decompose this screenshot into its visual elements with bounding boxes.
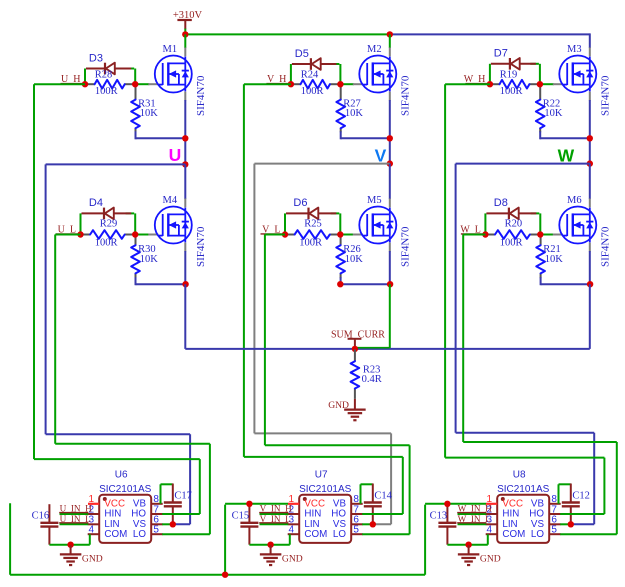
wire VS to column <box>571 523 594 525</box>
net label U_L underline <box>56 233 78 235</box>
net label U_IN_H underline <box>59 512 88 514</box>
svg-text:LO: LO <box>333 529 346 540</box>
U6 pin 2 HIN stub <box>88 513 100 515</box>
wire phase U to VS column <box>46 433 191 435</box>
wire SUM_CURR bus <box>185 348 590 350</box>
transistor M2 SIF4N70 <box>359 56 396 93</box>
svg-text:W: W <box>558 145 575 165</box>
node U8 ground junction <box>465 542 471 548</box>
gate pin stub <box>148 83 158 85</box>
wire source to return junction <box>589 100 591 164</box>
wire W_IN_H <box>458 513 487 515</box>
svg-text:4: 4 <box>88 525 94 536</box>
drain pin stub <box>389 48 391 57</box>
wire R31 return <box>136 137 186 139</box>
wire VB bootstrap loop <box>558 484 560 504</box>
drain pin stub <box>184 48 186 57</box>
wire U_IN_H <box>60 513 89 515</box>
op-amp U6 gate driver SIC2101AS body <box>99 495 151 543</box>
wire VS column <box>189 434 191 524</box>
wire LO column <box>209 444 211 534</box>
wire HO <box>362 513 403 515</box>
diode D8 <box>486 208 539 220</box>
phase U high side section <box>0 0 1 1</box>
U8 pin 4 COM stub <box>486 533 498 535</box>
capacitor C17 <box>164 484 182 525</box>
wire W_H horizontal <box>445 83 490 85</box>
net label U_IN_L underline <box>59 522 88 524</box>
wire R23 to ground <box>354 399 356 409</box>
svg-text:SIF4N70: SIF4N70 <box>599 226 611 267</box>
svg-text:R24: R24 <box>301 70 319 81</box>
svg-text:C16: C16 <box>32 510 50 521</box>
wire VS green segment <box>560 523 571 525</box>
wire COM jog <box>487 534 489 545</box>
node U_H right junction <box>132 81 138 87</box>
phase W low side section <box>0 0 1 1</box>
wire V_IN_H <box>260 513 289 515</box>
wire U_L horizontal <box>55 234 80 236</box>
U6 pin 5 LO stub <box>151 533 163 535</box>
node C14 VS junction <box>370 521 376 527</box>
wire HO <box>560 513 604 515</box>
source pin stub <box>389 243 391 252</box>
svg-text:100R: 100R <box>500 86 523 97</box>
wire drain feed <box>184 34 186 48</box>
svg-text:10K: 10K <box>545 254 564 265</box>
wire W_L horizontal <box>463 234 485 236</box>
drain pin stub <box>184 199 186 208</box>
wire ground run <box>49 544 89 546</box>
diode D4 <box>82 208 135 220</box>
svg-text:C17: C17 <box>174 491 192 502</box>
svg-text:GND: GND <box>480 554 501 565</box>
wire <box>134 213 136 234</box>
node U8 VCC junction <box>444 501 450 507</box>
wire <box>84 69 86 85</box>
node return junction <box>182 135 188 141</box>
ground GND (U7) <box>260 545 282 565</box>
wire W_L to LO column <box>463 441 617 443</box>
drain pin stub <box>389 199 391 208</box>
node return junction <box>387 135 393 141</box>
svg-text:COM: COM <box>104 529 127 540</box>
svg-text:COM: COM <box>304 529 327 540</box>
wire V_H to HO column <box>244 456 403 458</box>
wire <box>284 213 286 234</box>
source pin stub <box>184 243 186 252</box>
svg-text:SIF4N70: SIF4N70 <box>195 226 207 267</box>
node U7 VCC junction <box>246 501 252 507</box>
resistor R20 100R <box>486 230 539 239</box>
U7 pin 6 VS stub <box>351 523 363 525</box>
node lower return junction <box>182 281 188 287</box>
svg-text:10K: 10K <box>544 108 563 119</box>
wire top rail green segment <box>185 33 389 35</box>
wire LO column <box>409 445 411 534</box>
U8 pin 1 VCC stub <box>486 503 497 505</box>
phase W high side section <box>0 0 1 1</box>
wire U_IN_L <box>60 523 89 525</box>
wire VS column <box>593 433 595 525</box>
phase V low side section <box>0 0 1 1</box>
U6 pin-1 dot <box>103 497 107 501</box>
wire HO <box>162 513 200 515</box>
ground GND (U8) <box>458 545 480 565</box>
svg-text:GND: GND <box>82 554 103 565</box>
U8 pin 6 VS stub <box>549 523 561 525</box>
U8 pin 7 HO stub <box>549 513 561 515</box>
U7 pin 7 HO stub <box>351 513 363 515</box>
U6 pin 6 VS stub <box>151 523 163 525</box>
wire <box>339 213 341 234</box>
wire <box>290 64 292 84</box>
ground GND (R23) <box>344 409 366 411</box>
svg-text:M6: M6 <box>567 195 582 206</box>
resistor R29 100R <box>82 230 135 239</box>
U7 pin 4 COM stub <box>288 533 300 535</box>
wire LO <box>162 533 210 535</box>
resistor R23 0.4R <box>351 349 360 399</box>
wire M3 drain drop <box>589 33 591 48</box>
net label V_IN_L underline <box>259 522 288 524</box>
svg-text:SIC2101AS: SIC2101AS <box>497 484 550 495</box>
phase U low side section <box>0 0 1 1</box>
wire source to bus <box>589 284 591 349</box>
wire W_L vertical <box>462 235 464 443</box>
svg-text:10K: 10K <box>345 254 364 265</box>
svg-text:5: 5 <box>153 525 159 536</box>
wire LO <box>560 533 617 535</box>
wire U_H vertical <box>33 84 35 459</box>
wire <box>184 29 186 35</box>
source pin stub <box>389 92 391 101</box>
wire VS green segment <box>162 523 173 525</box>
svg-text:10K: 10K <box>140 108 159 119</box>
svg-text:4: 4 <box>288 525 294 536</box>
source pin stub <box>184 92 186 101</box>
U6 pin 4 COM stub <box>88 533 100 535</box>
svg-text:GND: GND <box>282 554 303 565</box>
svg-text:100R: 100R <box>301 86 324 97</box>
svg-text:M1: M1 <box>163 44 178 55</box>
node V_H left junction <box>288 81 294 87</box>
gate pin stub <box>553 83 563 85</box>
node W_L left junction <box>482 231 488 237</box>
ground GND (U6) <box>60 545 82 565</box>
wire R30 return <box>136 283 186 285</box>
resistor R21 10K <box>536 236 545 286</box>
wire phase to lower drain <box>589 164 591 199</box>
phase V high side section <box>0 0 1 1</box>
wire U_L vertical <box>54 235 56 444</box>
wire <box>339 64 341 84</box>
node phase V <box>387 160 393 166</box>
wire V_IN_L <box>260 523 289 525</box>
node W_H right junction <box>537 81 543 87</box>
svg-text:5: 5 <box>551 525 557 536</box>
svg-text:D8: D8 <box>494 197 508 209</box>
node bus junction <box>222 572 228 578</box>
wire <box>134 69 136 85</box>
wire <box>161 483 173 485</box>
wire U7 VCC feed <box>225 503 288 505</box>
gate pin stub <box>353 83 363 85</box>
wire <box>559 483 571 485</box>
node rail junction above M2 <box>387 31 393 37</box>
svg-text:10K: 10K <box>140 254 159 265</box>
transistor M1 SIF4N70 <box>155 56 192 93</box>
wire phase V vertical <box>253 164 255 434</box>
wire VS to column <box>173 523 190 525</box>
net label SUM_CURR underline <box>348 338 362 340</box>
wire to gate <box>341 234 354 236</box>
svg-text:COM: COM <box>502 529 525 540</box>
wire <box>361 483 373 485</box>
resistor R24 100R <box>292 80 340 89</box>
wire V_L horizontal <box>265 234 285 236</box>
svg-text:D4: D4 <box>89 197 103 209</box>
wire LO column <box>616 442 618 534</box>
svg-text:C12: C12 <box>572 491 590 502</box>
wire M5 source overlap <box>355 347 390 349</box>
wire phase W to VS column <box>456 432 595 434</box>
wire source to return junction <box>184 100 186 164</box>
node lower return junction <box>387 281 393 287</box>
wire <box>489 64 491 84</box>
wire source to return junction <box>389 100 391 164</box>
svg-text:0.4R: 0.4R <box>362 374 382 385</box>
wire to gate <box>136 234 149 236</box>
resistor R30 10K <box>131 236 140 286</box>
capacitor C15 <box>240 504 258 545</box>
U8 pin 5 LO stub <box>549 533 561 535</box>
gate pin stub <box>353 234 363 236</box>
U7 pin-1 dot <box>303 497 307 501</box>
wire R26 return <box>341 283 390 285</box>
svg-text:V: V <box>375 145 387 165</box>
svg-text:SIF4N70: SIF4N70 <box>399 75 411 116</box>
node U_H left junction <box>82 81 88 87</box>
wire lower source <box>589 251 591 284</box>
transistor M6 SIF4N70 <box>559 207 596 244</box>
capacitor C13 <box>438 504 456 545</box>
gate pin stub <box>148 234 158 236</box>
resistor R19 100R <box>491 80 539 89</box>
net label W_IN_L underline <box>457 522 486 524</box>
wire VS to column <box>373 523 391 525</box>
node phase W <box>587 160 593 166</box>
svg-text:C13: C13 <box>430 510 448 521</box>
svg-text:R20: R20 <box>505 218 523 229</box>
node C17 VS junction <box>170 521 176 527</box>
net label W_H underline <box>465 83 487 85</box>
wire phase V to VS column <box>254 432 391 434</box>
wire R22 return <box>540 137 590 139</box>
wire phase W horizontal <box>456 163 590 165</box>
wire ground run <box>447 544 487 546</box>
transistor M4 SIF4N70 <box>155 207 192 244</box>
svg-text:100R: 100R <box>299 238 322 249</box>
svg-text:SIC2101AS: SIC2101AS <box>299 484 352 495</box>
wire COM jog <box>289 534 291 545</box>
node U_L left junction <box>77 231 83 237</box>
resistor R26 10K <box>336 236 345 286</box>
wire VB bootstrap loop <box>360 484 362 504</box>
net label W_L underline <box>461 233 483 235</box>
svg-text:U8: U8 <box>513 469 526 480</box>
svg-text:R25: R25 <box>304 218 322 229</box>
wire HO column <box>603 458 605 514</box>
wire V_L to LO column <box>265 444 410 446</box>
wire to gate <box>341 83 353 85</box>
U6 pin 1 VCC stub <box>88 503 99 505</box>
resistor R27 10K <box>336 85 345 139</box>
svg-text:R29: R29 <box>100 218 118 229</box>
svg-text:SIF4N70: SIF4N70 <box>399 226 411 267</box>
U7 pin 8 VB stub <box>351 503 363 505</box>
svg-text:SIF4N70: SIF4N70 <box>195 75 207 116</box>
wire U_H horizontal <box>34 83 85 85</box>
wire V_L vertical <box>264 235 266 446</box>
svg-text:SIC2101AS: SIC2101AS <box>99 484 152 495</box>
wire U7 VCC riser <box>224 505 226 575</box>
resistor R31 10K <box>131 85 140 139</box>
svg-text:100R: 100R <box>500 238 523 249</box>
node lower return junction <box>587 281 593 287</box>
wire phase U vertical <box>45 164 47 434</box>
wire U8 VCC riser <box>424 505 426 575</box>
U6 pin 8 VB stub <box>151 503 163 505</box>
+310V power bar <box>177 19 191 21</box>
wire lower source <box>389 251 391 284</box>
svg-text:D6: D6 <box>293 197 307 209</box>
op-amp U7 gate driver SIC2101AS body <box>299 495 351 543</box>
wire COM jog <box>89 534 91 545</box>
wire V_H vertical <box>243 84 245 457</box>
node V_H right junction <box>337 81 343 87</box>
node +310V junction <box>182 31 188 37</box>
wire SUM_CURR stub <box>354 340 356 349</box>
svg-text:LO: LO <box>133 529 146 540</box>
wire phase to lower drain <box>184 164 186 199</box>
wire top rail blue segment <box>390 33 590 35</box>
svg-text:10K: 10K <box>345 108 364 119</box>
wire W_H vertical <box>444 84 446 457</box>
U8 pin 3 LIN stub <box>486 523 498 525</box>
drain pin stub <box>589 199 591 208</box>
drain pin stub <box>589 48 591 57</box>
wire source to bus <box>184 284 186 349</box>
net label V_H underline <box>266 83 288 85</box>
net label W_IN_H underline <box>457 512 486 514</box>
diode D3 <box>86 63 134 75</box>
wire V_H horizontal <box>244 83 291 85</box>
U7 pin 1 VCC stub <box>288 503 299 505</box>
svg-text:LO: LO <box>531 529 544 540</box>
node U7 ground junction <box>267 542 273 548</box>
wire phase V horizontal <box>254 163 389 165</box>
wire phase U horizontal <box>46 163 186 165</box>
node U6 ground junction <box>67 542 73 548</box>
svg-text:R28: R28 <box>95 70 113 81</box>
wire to gate <box>541 83 554 85</box>
wire bottom VCC bus <box>10 574 425 576</box>
wire <box>80 213 82 234</box>
net label V_IN_H underline <box>259 512 288 514</box>
svg-text:U6: U6 <box>115 469 128 480</box>
node SUM_CURR junction <box>352 346 358 352</box>
node R26 corner junction <box>337 281 343 287</box>
diode D5 <box>292 58 340 70</box>
wire W_IN_L <box>458 523 487 525</box>
wire R21 return <box>541 283 590 285</box>
svg-text:M3: M3 <box>567 44 582 55</box>
node return junction <box>587 135 593 141</box>
wire LO <box>362 533 409 535</box>
transistor M3 SIF4N70 <box>559 56 596 93</box>
gate pin stub <box>553 234 563 236</box>
node phase U <box>182 161 188 167</box>
wire VB bootstrap loop <box>160 484 162 504</box>
U8 pin 8 VB stub <box>549 503 561 505</box>
U7 pin 2 HIN stub <box>288 513 300 515</box>
op-amp U8 gate driver SIC2101AS body <box>497 495 549 543</box>
svg-text:R19: R19 <box>500 70 518 81</box>
wire U8 VCC feed <box>425 503 486 505</box>
wire ground run <box>249 544 289 546</box>
node V_L right junction <box>337 231 343 237</box>
wire source to bus <box>389 284 391 349</box>
wire left bus riser <box>9 503 11 574</box>
wire phase to lower drain <box>389 164 391 199</box>
svg-text:M4: M4 <box>163 195 178 206</box>
resistor R28 100R <box>86 80 134 89</box>
resistor R22 10K <box>536 85 545 139</box>
wire <box>539 64 541 84</box>
svg-text:100R: 100R <box>95 86 118 97</box>
svg-text:D3: D3 <box>89 52 103 64</box>
svg-text:D7: D7 <box>494 48 508 60</box>
wire lower source <box>184 251 186 284</box>
resistor R25 100R <box>286 230 339 239</box>
wire to gate <box>136 83 149 85</box>
capacitor C16 <box>40 504 58 545</box>
node V_L left junction <box>282 231 288 237</box>
svg-text:5: 5 <box>353 525 359 536</box>
node U_L right junction <box>132 231 138 237</box>
node W_L right junction <box>537 231 543 237</box>
node W_H left junction <box>487 81 493 87</box>
U6 pin 3 LIN stub <box>88 523 100 525</box>
svg-text:U: U <box>169 145 182 165</box>
wire HO column <box>402 457 404 514</box>
diode D7 <box>491 58 539 70</box>
net label V_L underline <box>261 233 283 235</box>
wire <box>484 213 486 234</box>
wire R27 return <box>341 137 390 139</box>
svg-text:4: 4 <box>486 525 492 536</box>
svg-text:U7: U7 <box>315 469 328 480</box>
wire W_H to HO column <box>445 457 604 459</box>
U6 pin 7 HO stub <box>151 513 163 515</box>
svg-text:100R: 100R <box>95 238 118 249</box>
U7 pin 3 LIN stub <box>288 523 300 525</box>
transistor M5 SIF4N70 <box>359 207 396 244</box>
svg-text:GND: GND <box>328 400 349 411</box>
wire drain feed <box>389 34 391 48</box>
wire +310V stub <box>184 21 186 29</box>
